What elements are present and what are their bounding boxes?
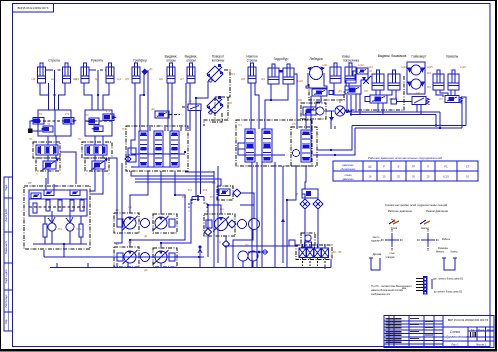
check valve КО1 angled bbox=[363, 76, 371, 84]
boom spool Р1 bbox=[33, 142, 60, 158]
svg-text:СТ: СТ bbox=[466, 165, 470, 169]
svg-text:Спр.: Спр. bbox=[5, 319, 8, 324]
svg-text:до линии к блоку шины Б2: до линии к блоку шины Б2 bbox=[434, 292, 463, 294]
svg-text:доп. линии к блоку шины Б1: доп. линии к блоку шины Б1 bbox=[433, 279, 464, 281]
risers to РЗ bbox=[461, 100, 462, 128]
svg-text:Конец: Конец bbox=[451, 251, 458, 254]
junction diamond bbox=[125, 156, 131, 162]
collector buses upper bbox=[347, 95, 440, 112]
svg-text:РУ3: РУ3 bbox=[182, 196, 187, 199]
pilot generators РУ1 РУ2 bbox=[48, 223, 56, 231]
pump Н4 bbox=[154, 250, 169, 264]
svg-text:Лебедка: Лебедка bbox=[309, 57, 322, 61]
svg-text:Гидробур: Гидробур bbox=[274, 57, 289, 61]
wires outrigger cyls bbox=[167, 83, 169, 131]
wires М2 bbox=[310, 96, 312, 129]
resistor 2 bbox=[58, 200, 62, 211]
filter block bbox=[117, 219, 123, 227]
svg-text:Масса: Масса bbox=[478, 330, 485, 332]
aux feed line bbox=[224, 245, 298, 247]
cylinder Ц4 bbox=[106, 63, 114, 83]
svg-text:Д1: Д1 bbox=[149, 67, 153, 71]
cylinder Ц15 bbox=[433, 70, 444, 90]
svg-text:В: В bbox=[398, 165, 400, 169]
svg-text:Подп. и дата: Подп. и дата bbox=[5, 269, 8, 284]
drossel unit bbox=[301, 233, 315, 247]
sub manifold Р5 bbox=[291, 127, 317, 166]
legend cross 1 bbox=[385, 233, 399, 247]
svg-text:Рабочее давление: Рабочее давление bbox=[388, 209, 413, 213]
diamond node Д bbox=[223, 241, 230, 248]
cylinder Ц11 bbox=[330, 63, 341, 83]
svg-text:РУ1: РУ1 bbox=[188, 189, 193, 192]
wires Ц9 Ц10 bbox=[265, 84, 271, 129]
manifold2 bus bbox=[242, 154, 285, 156]
svg-text:Ц14: Ц14 bbox=[401, 65, 407, 69]
svg-text:подключ.: подключ. bbox=[371, 240, 381, 243]
svg-text:Выдвиж. башмаков: Выдвиж. башмаков bbox=[378, 54, 407, 58]
svg-text:погрузчика: погрузчика bbox=[343, 59, 359, 63]
svg-text:Стрела: Стрела bbox=[48, 59, 60, 63]
aux pump circle bbox=[248, 251, 258, 261]
spool Р3.3 bbox=[170, 131, 179, 167]
arm relief КП2 bbox=[85, 158, 109, 171]
check valve block on Ц5 bbox=[142, 69, 148, 75]
dashed enclosure winch bbox=[309, 84, 344, 100]
pilot junction cluster РУ bbox=[195, 98, 197, 197]
svg-text:Гайковерт: Гайковерт bbox=[412, 55, 427, 59]
svg-text:изображение кон: изображение кон bbox=[371, 293, 391, 296]
tank filters enclosure bbox=[296, 245, 332, 260]
wire arm cyls down bbox=[84, 83, 92, 110]
spool Р4.2 bbox=[262, 129, 272, 162]
svg-text:М1: М1 bbox=[231, 72, 235, 76]
svg-text:опоры: опоры bbox=[166, 59, 176, 63]
return trunk upper bbox=[44, 256, 204, 258]
svg-text:Р3: Р3 bbox=[122, 127, 126, 131]
drain dash line motor stack bbox=[345, 76, 404, 110]
svg-text:Листов 1: Листов 1 bbox=[476, 344, 486, 347]
spool Р4.1 bbox=[245, 129, 255, 162]
diamond node bbox=[205, 229, 212, 236]
left resistor bbox=[33, 203, 37, 213]
svg-text:Режим давления: Режим давления bbox=[426, 209, 448, 213]
bridge valve 1 bbox=[44, 190, 54, 196]
main power unit enclosure bbox=[24, 186, 90, 249]
resistor 3 bbox=[70, 200, 74, 211]
pump Н3 bbox=[123, 250, 138, 264]
horizontal bus pair bbox=[135, 179, 221, 186]
svg-text:Ц3: Ц3 bbox=[75, 77, 79, 81]
svg-text:ВКР 15.03.02.260302.000.000 ГЗ: ВКР 15.03.02.260302.000.000 ГЗ bbox=[448, 318, 489, 322]
bus risers mid bbox=[435, 115, 437, 126]
pump Нст bbox=[213, 217, 229, 232]
svg-text:Р2: Р2 bbox=[78, 137, 82, 141]
svg-text:М4: М4 bbox=[427, 85, 431, 89]
cylinder Ц2 bbox=[63, 63, 71, 83]
РМ valve group bbox=[301, 103, 326, 119]
pilot element У2 bbox=[87, 118, 100, 125]
svg-text:Ц15: Ц15 bbox=[427, 65, 433, 69]
svg-text:Ц12: Ц12 bbox=[358, 63, 364, 67]
cylinder Ц10 bbox=[283, 64, 294, 84]
filter Ф5 bbox=[322, 248, 329, 258]
legend comb bbox=[423, 276, 428, 295]
left margin stamp cells bbox=[4, 177, 13, 198]
cartridge РВ bbox=[370, 95, 387, 103]
resistor 6 bbox=[79, 224, 83, 237]
svg-text:Схема: Схема bbox=[450, 330, 460, 334]
svg-text:Ц10: Ц10 bbox=[297, 79, 303, 83]
pump unit 1 enclosure bbox=[114, 213, 139, 233]
cylinder Ц6 bbox=[167, 63, 175, 83]
balance valve КТ3 bbox=[103, 114, 117, 121]
cartridge РП1 bbox=[345, 86, 361, 94]
svg-text:РМ: РМ bbox=[298, 98, 302, 102]
left bridge valve bbox=[31, 193, 41, 199]
breather symbol bbox=[198, 249, 202, 267]
legend bracket right bbox=[444, 258, 455, 270]
collector buses lower bbox=[352, 125, 466, 127]
cooler АТ bbox=[302, 189, 318, 198]
pump unit 4 enclosure bbox=[153, 248, 177, 267]
svg-text:М3: М3 bbox=[427, 71, 431, 75]
svg-text:Ц13: Ц13 bbox=[367, 65, 373, 69]
svg-text:Д2: Д2 bbox=[144, 268, 148, 272]
legend cross 2 bbox=[421, 233, 435, 247]
pilot element У1 bbox=[41, 126, 54, 132]
rotary motor М1 swing bbox=[207, 64, 224, 82]
svg-text:РС: РС bbox=[444, 165, 448, 169]
cylinder Ц14 bbox=[388, 70, 400, 90]
wire grab cyl down bbox=[134, 83, 136, 131]
cylinder Ц5 grab bbox=[132, 63, 140, 83]
svg-text:РУ2: РУ2 bbox=[203, 189, 208, 192]
drain triangle bbox=[329, 117, 334, 121]
svg-text:гидравлическая: гидравлическая bbox=[442, 335, 467, 339]
cylinder Ц13 bbox=[372, 70, 384, 90]
pump unit 2 enclosure bbox=[153, 214, 177, 233]
svg-text:Ц4: Ц4 bbox=[95, 77, 99, 81]
svg-text:РУ: РУ bbox=[28, 181, 32, 185]
coupling bbox=[141, 219, 150, 228]
svg-text:6,3/1: 6,3/1 bbox=[443, 175, 449, 179]
stubs into tank bbox=[56, 263, 58, 268]
svg-text:навеса обозначений составе: навеса обозначений составе bbox=[371, 289, 404, 292]
cylinder Ц16 bbox=[448, 70, 459, 90]
filter Ф4 bbox=[314, 248, 321, 258]
svg-text:Захваты: Захваты bbox=[446, 55, 459, 59]
winch brake valve bbox=[312, 89, 327, 96]
svg-text:Ц8: Ц8 bbox=[241, 77, 245, 81]
riser to stand pump bbox=[233, 229, 253, 268]
cartridge Д2 bbox=[155, 111, 169, 118]
svg-text:РУ1: РУ1 bbox=[58, 227, 63, 231]
svg-text:М5: М5 bbox=[228, 101, 232, 105]
manifold side element bbox=[128, 148, 136, 162]
svg-text:Инв.N подл.: Инв.N подл. bbox=[5, 294, 8, 308]
svg-text:Инв.N дубл.: Инв.N дубл. bbox=[5, 208, 8, 222]
manifold Р4 enclosure bbox=[236, 120, 312, 166]
cylinder Ц8 bbox=[248, 63, 256, 83]
svg-text:Схема настройки осей гидросист: Схема настройки осей гидросистемы секций bbox=[385, 203, 448, 207]
svg-text:Ф2...Ф5: Ф2...Ф5 bbox=[333, 250, 343, 254]
svg-text:Р: Р bbox=[383, 165, 385, 169]
svg-text:КТ2: КТ2 bbox=[65, 112, 70, 116]
upper sub box bbox=[29, 190, 87, 216]
svg-text:Д3: Д3 bbox=[188, 99, 192, 103]
manifold internal bus bbox=[131, 153, 185, 155]
svg-text:Ц16: Ц16 bbox=[460, 65, 466, 69]
resistor 1 bbox=[46, 200, 50, 211]
cylinder Ц1 bbox=[38, 63, 46, 83]
pressure table bbox=[333, 161, 478, 181]
svg-text:Р1: Р1 bbox=[29, 137, 33, 141]
cylinder Ц9 bbox=[268, 64, 279, 84]
svg-text:Д1: Д1 bbox=[144, 234, 148, 238]
junction dots bbox=[53, 94, 55, 96]
drop line with check element bbox=[282, 166, 284, 263]
cylinder Ц12 bbox=[345, 63, 356, 83]
svg-text:Ц4: Ц4 bbox=[117, 77, 121, 81]
bridge valve 2 bbox=[70, 190, 80, 196]
spool Р3.1 bbox=[139, 131, 148, 167]
manifold1 bottom drops bbox=[131, 171, 214, 176]
pilot connector block bbox=[28, 129, 33, 134]
svg-text:Ц6: Ц6 bbox=[159, 77, 163, 81]
svg-text:Ц7: Ц7 bbox=[180, 77, 184, 81]
tilted motor М5 bbox=[207, 96, 224, 114]
svg-text:Ф: Ф bbox=[339, 100, 341, 104]
top-left stamp box bbox=[13, 4, 54, 13]
filter Ф2 bbox=[299, 248, 306, 258]
svg-text:РП: РП bbox=[364, 89, 368, 93]
svg-text:КР: КР bbox=[416, 91, 420, 95]
svg-text:ГР: ГР bbox=[412, 165, 415, 169]
resistor 5 bbox=[43, 224, 47, 237]
svg-text:давления: давления bbox=[342, 178, 354, 181]
wires pumps up bbox=[130, 171, 148, 213]
svg-text:Дренаж: Дренаж bbox=[373, 253, 382, 256]
aux motor circle bbox=[238, 251, 248, 261]
filter Ф3 bbox=[307, 248, 314, 258]
svg-text:линия: линия bbox=[345, 174, 353, 177]
svg-text:Подп.: Подп. bbox=[5, 184, 8, 191]
boom balance block bbox=[38, 110, 71, 136]
main tank line bbox=[50, 267, 331, 269]
joystick pilot dashed drops bbox=[189, 199, 192, 208]
svg-text:Д4: Д4 bbox=[338, 89, 342, 93]
svg-text:РЗ: РЗ bbox=[439, 97, 443, 101]
svg-text:Ц5: Ц5 bbox=[125, 77, 129, 81]
wires into power unit bbox=[45, 178, 47, 190]
block bbox=[169, 219, 175, 227]
cartridge Д3 bbox=[188, 104, 201, 111]
svg-text:Н и ЛС - соответствие Внешнешн: Н и ЛС - соответствие Внешнешнего bbox=[371, 285, 412, 288]
svg-text:Взам.инв.N: Взам.инв.N bbox=[5, 241, 8, 254]
pump Н2 bbox=[154, 216, 169, 230]
КО enclosure bbox=[217, 186, 233, 200]
svg-text:отводов: отводов bbox=[386, 256, 396, 259]
svg-text:колонны: колонны bbox=[212, 59, 225, 63]
РМ2 bus to manifold bbox=[317, 126, 352, 151]
svg-text:Р4: Р4 bbox=[238, 123, 242, 127]
gauge tap bbox=[248, 251, 268, 253]
cylinder Ц3 bbox=[81, 63, 89, 83]
pair link wire bbox=[46, 69, 54, 71]
svg-text:Начало: Начало bbox=[436, 251, 445, 254]
resistor 4 bbox=[80, 200, 84, 211]
svg-text:Ц9: Ц9 bbox=[261, 77, 265, 81]
dashed drain enclosure of М1 bbox=[215, 70, 230, 97]
manifold Р3 enclosure bbox=[126, 126, 188, 171]
svg-text:Ц1/: Ц1/ bbox=[368, 165, 372, 169]
legend arrow 1 bbox=[389, 220, 395, 224]
wires Ц11-Ц16 down bbox=[334, 83, 344, 95]
svg-text:П: П bbox=[427, 165, 429, 169]
svg-text:Рабочие давления исполнительны: Рабочие давления исполнительных гидродви… bbox=[368, 156, 442, 160]
boom relief КП1 bbox=[36, 158, 60, 171]
balance valve КТ2 bbox=[63, 118, 77, 125]
svg-text:Ц11: Ц11 bbox=[322, 63, 328, 67]
manifold2 side element bbox=[238, 143, 245, 155]
long drops from manifolds bbox=[213, 171, 215, 267]
title block bbox=[384, 316, 494, 348]
svg-text:Грейфер: Грейфер bbox=[133, 59, 147, 63]
arm balance block bbox=[85, 110, 112, 136]
svg-text:стрелы: стрелы bbox=[247, 59, 258, 63]
cartridge РЗ bbox=[445, 96, 459, 103]
svg-text:Масш: Масш bbox=[487, 330, 493, 332]
svg-text:Лист 1: Лист 1 bbox=[451, 344, 459, 347]
svg-text:Рукоять: Рукоять bbox=[91, 59, 104, 63]
pump unit 3 enclosure bbox=[114, 247, 139, 267]
mid element bbox=[92, 126, 104, 132]
legend arrow 2 bbox=[420, 220, 426, 224]
feed lines from valve groups to pumps bbox=[116, 163, 118, 219]
check diamond bbox=[233, 189, 241, 197]
valve КПР with spring bbox=[412, 97, 426, 105]
svg-text:обозначение: обозначение bbox=[341, 168, 357, 171]
М1 drain continuation bbox=[215, 97, 228, 120]
wire boom cyls down bbox=[40, 83, 49, 95]
filter Ф bbox=[335, 106, 345, 116]
wires Ц8 bbox=[250, 83, 252, 129]
balance valve КТ1 bbox=[31, 118, 45, 125]
svg-text:давление: давление bbox=[342, 164, 354, 167]
spool Р3.2 bbox=[154, 131, 163, 167]
pump Н1 bbox=[123, 216, 138, 230]
svg-text:Кабель: Кабель bbox=[442, 238, 451, 241]
wires st pump bbox=[208, 205, 221, 229]
wires swing motor bbox=[196, 81, 208, 98]
svg-text:КТ1: КТ1 bbox=[38, 112, 43, 116]
svg-text:Ц1: Ц1 bbox=[32, 77, 36, 81]
svg-text:КТ3: КТ3 bbox=[106, 109, 111, 113]
check diamond 1 bbox=[300, 199, 310, 209]
check diamond 2 bbox=[313, 199, 323, 209]
cylinder Ц7 bbox=[187, 63, 195, 83]
arm spool Р2 bbox=[82, 142, 112, 158]
svg-text:опоры: опоры bbox=[186, 59, 196, 63]
st pump unit enclosure bbox=[204, 214, 235, 236]
svg-text:Р5: Р5 bbox=[292, 122, 296, 126]
valve К1 bbox=[357, 68, 368, 74]
svg-text:Д2: Д2 bbox=[151, 107, 155, 111]
svg-text:ВКР.15.03.02.240302.00 ГЗ: ВКР.15.03.02.240302.00 ГЗ bbox=[18, 7, 49, 10]
svg-text:Лит: Лит bbox=[471, 330, 475, 332]
